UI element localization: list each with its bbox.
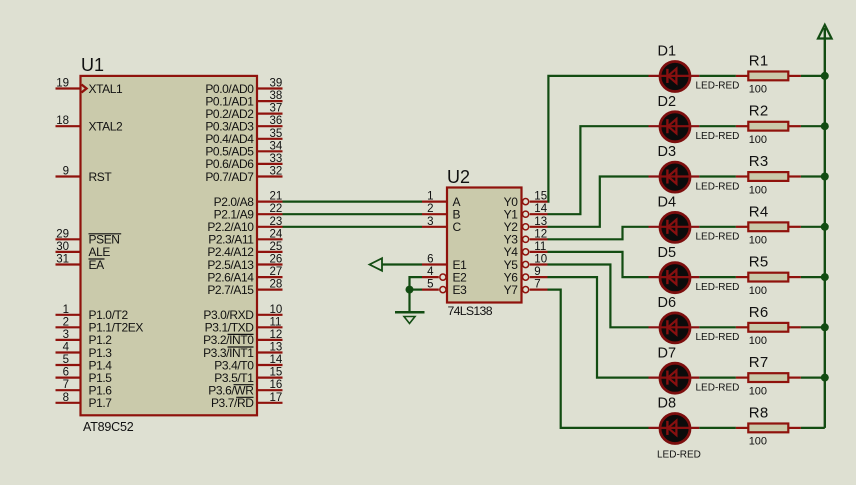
- svg-text:R5: R5: [749, 254, 769, 271]
- svg-text:XTAL2: XTAL2: [89, 120, 124, 134]
- U1 pin 28 right: [207, 279, 282, 297]
- U2 pin 1 (A): [422, 191, 461, 209]
- wire D4 to R4: [699, 226, 736, 228]
- wire R3 to VCC rail: [801, 175, 825, 177]
- LED D8: [649, 414, 700, 444]
- U1 pin 39 right: [205, 78, 282, 96]
- svg-text:LED-RED: LED-RED: [696, 181, 740, 192]
- svg-text:17: 17: [270, 392, 283, 404]
- svg-text:RST: RST: [89, 170, 113, 184]
- svg-text:AT89C52: AT89C52: [83, 420, 134, 434]
- svg-text:11: 11: [270, 316, 282, 328]
- svg-text:8: 8: [63, 392, 69, 404]
- LED D2: [649, 112, 700, 142]
- svg-text:4: 4: [427, 266, 434, 278]
- svg-text:4: 4: [63, 342, 70, 354]
- U1 pin 3 (P1.2) left: [56, 329, 113, 347]
- svg-text:100: 100: [749, 134, 767, 146]
- svg-text:D2: D2: [658, 94, 677, 110]
- svg-text:LED-RED: LED-RED: [696, 232, 740, 243]
- U1 pin 9 (RST) left: [56, 166, 113, 184]
- svg-text:18: 18: [56, 115, 69, 127]
- U1 pin 30 (ALE) left: [56, 241, 111, 259]
- svg-text:E3: E3: [453, 283, 468, 297]
- svg-text:100: 100: [749, 84, 767, 96]
- resistor R2: [736, 122, 801, 131]
- wire P2.1/A9 to U2.B: [283, 213, 423, 215]
- wire D3 to R3: [699, 175, 736, 177]
- svg-text:39: 39: [270, 78, 283, 90]
- U1 pin 18 (XTAL2) left: [56, 115, 124, 133]
- U1 pin 1 (P1.0/T2) left: [56, 304, 129, 322]
- svg-text:29: 29: [56, 228, 69, 240]
- U1 pin 15 right: [214, 367, 282, 385]
- wire R1 to VCC rail: [801, 75, 825, 77]
- U2 pin 10 (Y5): [504, 254, 548, 272]
- svg-text:25: 25: [270, 241, 283, 253]
- wire D6 to R6: [699, 326, 736, 328]
- wire VCC rail (vertical bus): [824, 28, 826, 428]
- U1 pin 21 right: [214, 191, 283, 209]
- wire E3 to ground net: [410, 289, 423, 291]
- svg-text:100: 100: [749, 335, 767, 347]
- U1 pin 14 right: [214, 354, 283, 372]
- svg-text:26: 26: [270, 254, 283, 266]
- resistor R1: [736, 72, 801, 81]
- power terminal VCC (up arrow): [818, 25, 832, 39]
- svg-text:13: 13: [270, 342, 283, 354]
- U2 pin 5 (E3): [422, 279, 467, 297]
- svg-text:28: 28: [270, 279, 283, 291]
- wire Y5 to D6: [548, 265, 649, 328]
- U1 pin 4 (P1.3) left: [56, 342, 113, 360]
- U2 pin 4 (E2): [422, 266, 467, 284]
- svg-text:14: 14: [534, 203, 547, 215]
- wire D2 to R2: [699, 125, 736, 127]
- junction rail row 5: [821, 273, 829, 281]
- resistor R6: [736, 323, 801, 332]
- wire Y2 to D3: [548, 177, 649, 227]
- svg-text:74LS138: 74LS138: [448, 304, 493, 318]
- svg-text:D3: D3: [658, 144, 677, 160]
- wire D1 to R1: [699, 75, 736, 77]
- svg-text:R4: R4: [749, 203, 769, 220]
- U1 pin 36 right: [205, 115, 282, 133]
- svg-text:LED-RED: LED-RED: [696, 81, 740, 92]
- junction rail row 3: [821, 173, 829, 181]
- svg-text:D8: D8: [658, 396, 677, 412]
- junction rail row 2: [821, 122, 829, 130]
- U1 pin 16 right: [208, 379, 282, 397]
- svg-text:3: 3: [427, 216, 433, 228]
- svg-text:1: 1: [63, 304, 69, 316]
- svg-text:9: 9: [534, 266, 540, 278]
- wire terminal to E1: [382, 263, 422, 265]
- LED D1: [649, 62, 700, 92]
- U1 pin 2 (P1.1/T2EX) left: [56, 316, 144, 334]
- svg-text:EA: EA: [89, 258, 105, 272]
- svg-text:1: 1: [427, 191, 433, 203]
- U1 pin 27 right: [207, 266, 282, 284]
- U1 XTAL1 clock chevron: [82, 85, 87, 93]
- svg-text:12: 12: [534, 228, 547, 240]
- svg-text:P2.7/A15: P2.7/A15: [207, 283, 254, 297]
- U1 pin 35 right: [205, 128, 282, 146]
- svg-text:XTAL1: XTAL1: [89, 82, 124, 96]
- LED D7: [649, 363, 700, 393]
- wire R8 to VCC rail: [801, 427, 825, 429]
- svg-text:100: 100: [749, 285, 767, 297]
- svg-text:U2: U2: [447, 167, 470, 187]
- wire Y6 to D7: [548, 277, 649, 378]
- svg-text:13: 13: [534, 216, 547, 228]
- junction rail row 1: [821, 72, 829, 80]
- svg-text:30: 30: [56, 241, 69, 253]
- U1 pin 10 right: [203, 304, 282, 322]
- wire E2 to ground net: [410, 277, 423, 290]
- LED D4: [649, 212, 700, 242]
- svg-text:R2: R2: [749, 103, 769, 120]
- wire R6 to VCC rail: [801, 326, 825, 328]
- svg-text:P3.7/RD: P3.7/RD: [211, 396, 254, 410]
- wire R4 to VCC rail: [801, 226, 825, 228]
- LED D5: [649, 263, 700, 293]
- svg-text:16: 16: [270, 379, 283, 391]
- resistor R7: [736, 373, 801, 382]
- LED D6: [649, 313, 700, 343]
- svg-text:3: 3: [63, 329, 69, 341]
- U2 pin 13 (Y2): [504, 216, 548, 234]
- svg-text:5: 5: [427, 279, 433, 291]
- resistor R8: [736, 424, 801, 433]
- U2 pin 9 (Y6): [504, 266, 548, 284]
- U1 pin 26 right: [207, 254, 282, 272]
- wire D7 to R7: [699, 377, 736, 379]
- wire P2.0/A8 to U2.A: [283, 201, 423, 203]
- svg-text:100: 100: [749, 235, 767, 247]
- svg-text:LED-RED: LED-RED: [696, 131, 740, 142]
- wire R7 to VCC rail: [801, 377, 825, 379]
- LED D3: [649, 162, 700, 192]
- wire Y3 to D4: [548, 227, 649, 240]
- U1 pin 11 right: [205, 316, 283, 334]
- U1 pin 17 right: [211, 392, 283, 410]
- svg-text:33: 33: [270, 153, 283, 165]
- U1 pin 34 right: [205, 140, 283, 158]
- wire Y1 to D2: [548, 126, 649, 214]
- svg-text:R8: R8: [749, 404, 769, 421]
- junction rail row 4: [821, 223, 829, 231]
- svg-text:7: 7: [63, 379, 69, 391]
- U1 pin 24 right: [208, 228, 283, 246]
- U2 pin 7 (Y7): [504, 279, 548, 297]
- U1 pin 31 (EA) left: [56, 254, 105, 272]
- svg-text:21: 21: [270, 191, 283, 203]
- svg-text:10: 10: [270, 304, 283, 316]
- resistor R3: [736, 172, 801, 181]
- svg-text:24: 24: [270, 228, 283, 240]
- U1 pin 23 right: [207, 216, 282, 234]
- svg-text:14: 14: [270, 354, 283, 366]
- U1 pin 5 (P1.4) left: [56, 354, 113, 372]
- wire D8 to R8: [699, 427, 736, 429]
- svg-text:2: 2: [427, 203, 433, 215]
- svg-text:100: 100: [749, 184, 767, 196]
- svg-text:D6: D6: [658, 295, 677, 311]
- U1 pin 32 right: [205, 166, 282, 184]
- wire Y7 to D8: [548, 290, 649, 428]
- svg-text:D4: D4: [658, 195, 677, 211]
- U1 pin 12 right: [203, 329, 282, 347]
- svg-text:35: 35: [270, 128, 283, 140]
- svg-text:6: 6: [427, 254, 433, 266]
- U1 pin 13 right: [203, 342, 282, 360]
- svg-text:7: 7: [534, 279, 540, 291]
- svg-text:D5: D5: [658, 245, 677, 261]
- wire to ground: [408, 290, 410, 312]
- U1 pin 7 (P1.6) left: [56, 379, 113, 397]
- svg-text:R3: R3: [749, 153, 769, 170]
- svg-text:100: 100: [749, 436, 767, 448]
- U2 pin 12 (Y3): [504, 228, 548, 246]
- svg-text:22: 22: [270, 203, 283, 215]
- junction rail row 7: [821, 374, 829, 382]
- wire Y0 to D1: [548, 76, 649, 202]
- U2 pin 3 (C): [422, 216, 462, 234]
- U1 pin 22 right: [214, 203, 283, 221]
- svg-text:6: 6: [63, 367, 69, 379]
- svg-text:9: 9: [63, 166, 69, 178]
- U1 pin 8 (P1.7) left: [56, 392, 113, 410]
- U1 pin 33 right: [205, 153, 282, 171]
- wire R5 to VCC rail: [801, 276, 825, 278]
- svg-text:LED-RED: LED-RED: [696, 332, 740, 343]
- U1 pin 6 (P1.5) left: [56, 367, 113, 385]
- svg-text:32: 32: [270, 166, 283, 178]
- U1 pin 25 right: [207, 241, 282, 259]
- svg-text:LED-RED: LED-RED: [696, 382, 740, 393]
- svg-text:D1: D1: [658, 44, 677, 60]
- svg-text:15: 15: [534, 191, 547, 203]
- svg-text:27: 27: [270, 266, 283, 278]
- svg-text:5: 5: [63, 354, 69, 366]
- wire R2 to VCC rail: [801, 125, 825, 127]
- U2 pin 11 (Y4): [504, 241, 548, 259]
- svg-text:12: 12: [270, 329, 283, 341]
- svg-text:10: 10: [534, 254, 547, 266]
- U2 pin 6 (E1): [422, 254, 467, 272]
- svg-text:Y7: Y7: [504, 283, 519, 297]
- svg-text:C: C: [453, 220, 462, 234]
- wire Y4 to D5: [548, 252, 649, 277]
- U1 pin 37 right: [205, 103, 282, 121]
- U1 pin 29 (PSEN) left: [56, 228, 122, 246]
- svg-text:23: 23: [270, 216, 283, 228]
- junction rail row 6: [821, 323, 829, 331]
- svg-text:100: 100: [749, 385, 767, 397]
- svg-text:U1: U1: [81, 55, 104, 75]
- chip U1 AT89C52 body: [81, 76, 258, 415]
- svg-text:LED-RED: LED-RED: [657, 449, 701, 460]
- svg-text:11: 11: [534, 241, 546, 253]
- U1 pin 19 (XTAL1) left: [56, 78, 124, 96]
- svg-text:R6: R6: [749, 304, 769, 321]
- resistor R5: [736, 273, 801, 282]
- svg-text:P1.7: P1.7: [89, 396, 113, 410]
- wire P2.2/A10 to U2.C: [283, 226, 423, 228]
- svg-text:D7: D7: [658, 345, 677, 361]
- terminal arrow (E1 input): [370, 258, 383, 271]
- svg-text:31: 31: [56, 254, 69, 266]
- svg-text:36: 36: [270, 115, 283, 127]
- svg-text:19: 19: [56, 78, 69, 90]
- ground symbol: [395, 312, 425, 323]
- U2 pin 15 (Y0): [504, 191, 548, 209]
- svg-text:34: 34: [270, 140, 283, 152]
- U2 pin 14 (Y1): [504, 203, 548, 221]
- svg-text:38: 38: [270, 90, 283, 102]
- wire D5 to R5: [699, 276, 736, 278]
- resistor R4: [736, 222, 801, 231]
- decoder U2 74LS138 body: [447, 188, 522, 303]
- svg-text:R7: R7: [749, 354, 769, 371]
- svg-text:R1: R1: [749, 52, 769, 69]
- svg-text:P0.7/AD7: P0.7/AD7: [205, 170, 254, 184]
- U2 pin 2 (B): [422, 203, 461, 221]
- U1 pin 38 right: [205, 90, 282, 108]
- svg-text:15: 15: [270, 367, 283, 379]
- svg-text:2: 2: [63, 316, 69, 328]
- svg-text:LED-RED: LED-RED: [696, 282, 740, 293]
- junction E2/E3 node: [406, 286, 414, 294]
- svg-text:37: 37: [270, 103, 283, 115]
